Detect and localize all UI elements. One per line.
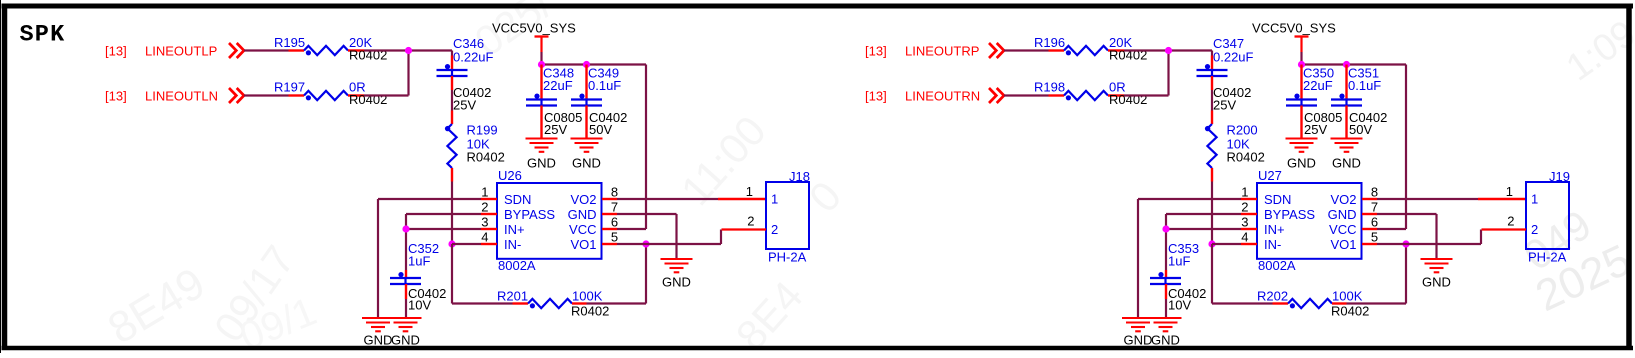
svg-text:IN-: IN-: [1264, 237, 1281, 252]
svg-text:0.1uF: 0.1uF: [588, 78, 621, 93]
svg-text:22uF: 22uF: [543, 78, 573, 93]
wire: [1137, 199, 1139, 318]
svg-text:U27: U27: [1258, 168, 1282, 183]
U26 pin 6: [602, 228, 617, 230]
svg-text:25V: 25V: [1304, 122, 1327, 137]
svg-text:PH-2A: PH-2A: [1528, 250, 1567, 265]
U26 pin 5: [602, 243, 617, 245]
wire: [452, 302, 513, 304]
svg-text:LINEOUTRP: LINEOUTRP: [905, 44, 979, 59]
svg-text:8: 8: [611, 185, 618, 200]
svg-text:GND: GND: [1124, 333, 1153, 348]
wire: [364, 49, 452, 51]
svg-text:R197: R197: [274, 80, 305, 95]
ground: [1122, 317, 1154, 319]
junction: [1402, 240, 1409, 247]
junction: [642, 240, 649, 247]
connector J18: [766, 182, 809, 249]
wire: [1165, 299, 1167, 318]
wire: [617, 228, 646, 230]
svg-text:GND: GND: [1422, 275, 1451, 290]
wire: [1377, 243, 1406, 245]
svg-text:25V: 25V: [544, 122, 567, 137]
wire: [1377, 228, 1406, 230]
svg-text:LINEOUTRN: LINEOUTRN: [905, 89, 980, 104]
svg-text:GND: GND: [391, 333, 420, 348]
wire: [1138, 198, 1241, 200]
junction: [405, 47, 412, 54]
wire: [1211, 182, 1213, 245]
wire: [451, 51, 453, 56]
junction: [1298, 61, 1305, 68]
svg-text:[13]: [13]: [105, 44, 127, 59]
svg-text:IN+: IN+: [504, 222, 525, 237]
svg-text:2: 2: [1507, 214, 1514, 229]
wire: [1406, 243, 1481, 245]
wire: [1165, 214, 1167, 270]
resistor R197: [289, 94, 305, 96]
svg-text:R198: R198: [1034, 80, 1065, 95]
svg-text:8002A: 8002A: [498, 258, 536, 273]
U27 pin 4: [1241, 243, 1257, 245]
junction: [1165, 47, 1172, 54]
svg-text:VO2: VO2: [570, 192, 596, 207]
svg-text:1: 1: [771, 192, 778, 207]
svg-text:PH-2A: PH-2A: [768, 250, 807, 265]
svg-text:J18: J18: [789, 169, 810, 184]
svg-text:GND: GND: [1328, 207, 1357, 222]
svg-text:GND: GND: [572, 156, 601, 171]
svg-text:GND: GND: [662, 275, 691, 290]
junction: [583, 61, 590, 68]
svg-text:1uF: 1uF: [1168, 254, 1190, 269]
svg-text:GND: GND: [364, 333, 393, 348]
wire: [1166, 213, 1241, 215]
svg-text:GND: GND: [568, 207, 597, 222]
ground: [571, 137, 603, 139]
wire: [1166, 228, 1241, 230]
wire: [617, 243, 646, 245]
U26 pin 7: [602, 213, 617, 215]
wire: [645, 244, 647, 304]
J18 pin 2: [722, 228, 767, 230]
capacitor C347: [1211, 56, 1213, 71]
svg-text:IN-: IN-: [504, 237, 521, 252]
capacitor C352: [405, 270, 407, 278]
svg-text:1uF: 1uF: [408, 254, 430, 269]
svg-text:0.1uF: 0.1uF: [1348, 78, 1381, 93]
svg-text:50V: 50V: [589, 122, 612, 137]
ground: [1331, 137, 1363, 139]
svg-text:1: 1: [1531, 192, 1538, 207]
svg-text:BYPASS: BYPASS: [1264, 207, 1315, 222]
junction: [1343, 61, 1350, 68]
wire: [406, 213, 481, 215]
U27 pin 1: [1241, 198, 1257, 200]
svg-text:0.22uF: 0.22uF: [453, 50, 494, 65]
ground: [1421, 258, 1453, 260]
svg-text:25V: 25V: [1213, 98, 1236, 113]
svg-text:25V: 25V: [453, 98, 476, 113]
resistor R201: [513, 302, 529, 304]
svg-text:1: 1: [746, 184, 753, 199]
wire: [1211, 244, 1213, 304]
wire: [244, 94, 289, 96]
wire: [452, 243, 481, 245]
svg-text:R195: R195: [274, 35, 305, 50]
svg-text:4: 4: [481, 230, 488, 245]
svg-text:7: 7: [611, 200, 618, 215]
wire: [1302, 63, 1407, 65]
svg-text:2: 2: [747, 214, 754, 229]
svg-text:5: 5: [1371, 230, 1378, 245]
svg-text:7: 7: [1371, 200, 1378, 215]
svg-text:VO1: VO1: [1330, 237, 1356, 252]
wire: [364, 94, 409, 96]
svg-text:R0402: R0402: [571, 304, 609, 319]
svg-text:22uF: 22uF: [1303, 78, 1333, 93]
U26 pin 3: [481, 228, 497, 230]
wire: [1211, 51, 1213, 56]
wire: [542, 63, 647, 65]
svg-text:R196: R196: [1034, 35, 1065, 50]
svg-text:VCC: VCC: [1329, 222, 1356, 237]
svg-text:GND: GND: [1287, 156, 1316, 171]
svg-text:8: 8: [1371, 185, 1378, 200]
svg-text:R0402: R0402: [1331, 304, 1369, 319]
svg-text:R199: R199: [467, 123, 498, 138]
connector J19: [1526, 182, 1569, 249]
svg-text:10V: 10V: [1168, 298, 1191, 313]
svg-text:SDN: SDN: [1264, 192, 1291, 207]
junction: [1208, 240, 1215, 247]
svg-text:U26: U26: [498, 168, 522, 183]
wire: [1405, 244, 1407, 304]
svg-text:VCC: VCC: [569, 222, 596, 237]
svg-text:1: 1: [1241, 185, 1248, 200]
capacitor C353: [1165, 270, 1167, 278]
resistor R198: [1049, 94, 1065, 96]
svg-text:LINEOUTLN: LINEOUTLN: [145, 89, 218, 104]
op-amp U26: [497, 183, 602, 259]
U27 pin 3: [1241, 228, 1257, 230]
svg-text:100K: 100K: [1332, 289, 1363, 304]
svg-text:2: 2: [1531, 222, 1538, 237]
resistor R196: [1049, 49, 1065, 51]
wire: [1347, 302, 1407, 304]
svg-text:2: 2: [771, 222, 778, 237]
wire: [1004, 49, 1049, 51]
wire: [405, 299, 407, 318]
resistor R195: [289, 49, 305, 51]
wire: [617, 198, 718, 200]
svg-text:[13]: [13]: [105, 89, 127, 104]
wire: [451, 90, 453, 111]
wire: [1405, 65, 1407, 230]
wire: [1124, 94, 1169, 96]
capacitor C350: [1300, 65, 1302, 100]
svg-text:GND: GND: [1332, 156, 1361, 171]
wire: [540, 52, 542, 65]
capacitor C351: [1345, 65, 1347, 100]
svg-text:VCC5V0_SYS: VCC5V0_SYS: [492, 21, 576, 36]
svg-text:GND: GND: [527, 156, 556, 171]
svg-text:3: 3: [481, 215, 488, 230]
wire: [675, 214, 677, 259]
svg-text:[13]: [13]: [865, 44, 887, 59]
wire: [406, 228, 481, 230]
ground: [661, 258, 693, 260]
wire: [617, 213, 677, 215]
svg-text:R0402: R0402: [1109, 92, 1147, 107]
ground: [390, 317, 422, 319]
wire: [1211, 90, 1213, 111]
ground: [1286, 137, 1318, 139]
U26 pin 8: [602, 198, 617, 200]
svg-text:SDN: SDN: [504, 192, 531, 207]
svg-text:2: 2: [1241, 200, 1248, 215]
wire: [1167, 51, 1169, 96]
svg-text:LINEOUTLP: LINEOUTLP: [145, 44, 217, 59]
wire: [451, 182, 453, 245]
svg-text:SPK: SPK: [20, 22, 66, 49]
wire: [1478, 198, 1526, 200]
svg-text:4: 4: [1241, 230, 1248, 245]
svg-text:R202: R202: [1257, 289, 1288, 304]
border frame: [2, 4, 1634, 9]
svg-text:5: 5: [611, 230, 618, 245]
wire: [587, 302, 647, 304]
svg-text:BYPASS: BYPASS: [504, 207, 555, 222]
svg-text:[13]: [13]: [865, 89, 887, 104]
svg-text:VO1: VO1: [570, 237, 596, 252]
svg-text:1: 1: [1506, 184, 1513, 199]
U27 pin 5: [1362, 243, 1377, 245]
svg-text:GND: GND: [1151, 333, 1180, 348]
U27 pin 7: [1362, 213, 1377, 215]
wire: [718, 198, 766, 200]
wire: [377, 199, 379, 318]
U27 pin 6: [1362, 228, 1377, 230]
U26 pin 1: [481, 198, 497, 200]
svg-text:0.22uF: 0.22uF: [1213, 50, 1254, 65]
svg-text:10V: 10V: [408, 298, 431, 313]
svg-text:100K: 100K: [572, 289, 603, 304]
svg-text:R200: R200: [1227, 123, 1258, 138]
svg-text:R0402: R0402: [349, 92, 387, 107]
wire: [405, 214, 407, 270]
svg-text:VO2: VO2: [1330, 192, 1356, 207]
resistor R199: [451, 111, 453, 125]
wire: [1377, 198, 1478, 200]
wire: [1435, 214, 1437, 259]
wire: [1212, 302, 1273, 304]
ground: [362, 317, 394, 319]
svg-text:J19: J19: [1549, 169, 1570, 184]
U27 pin 2: [1241, 213, 1257, 215]
wire: [451, 244, 453, 304]
svg-text:R0402: R0402: [1227, 150, 1265, 165]
svg-text:1: 1: [481, 185, 488, 200]
wire: [244, 49, 289, 51]
wire: [378, 198, 481, 200]
wire: [645, 65, 647, 230]
resistor R202: [1273, 302, 1289, 304]
wire: [720, 230, 722, 245]
wire: [1377, 213, 1437, 215]
wire: [407, 51, 409, 96]
wire: [1124, 49, 1212, 51]
svg-text:IN+: IN+: [1264, 222, 1285, 237]
wire: [1004, 94, 1049, 96]
wire: [646, 243, 721, 245]
capacitor C346: [451, 56, 453, 71]
J19 pin 2: [1482, 228, 1527, 230]
wire: [1212, 243, 1241, 245]
svg-text:6: 6: [611, 215, 618, 230]
svg-text:50V: 50V: [1349, 122, 1372, 137]
resistor R200: [1211, 111, 1213, 125]
capacitor C348: [540, 65, 542, 100]
junction: [402, 225, 409, 232]
junction: [448, 240, 455, 247]
svg-text:R201: R201: [497, 289, 528, 304]
wire: [1480, 230, 1482, 245]
U27 pin 8: [1362, 198, 1377, 200]
ground: [1150, 317, 1182, 319]
svg-text:VCC5V0_SYS: VCC5V0_SYS: [1252, 21, 1336, 36]
op-amp U27: [1257, 183, 1362, 259]
svg-text:6: 6: [1371, 215, 1378, 230]
capacitor C349: [585, 65, 587, 100]
wire: [1300, 52, 1302, 65]
ground: [526, 137, 558, 139]
svg-text:3: 3: [1241, 215, 1248, 230]
svg-text:8002A: 8002A: [1258, 258, 1296, 273]
junction: [1162, 225, 1169, 232]
U26 pin 4: [481, 243, 497, 245]
svg-text:2: 2: [481, 200, 488, 215]
junction: [538, 61, 545, 68]
svg-text:R0402: R0402: [467, 150, 505, 165]
U26 pin 2: [481, 213, 497, 215]
